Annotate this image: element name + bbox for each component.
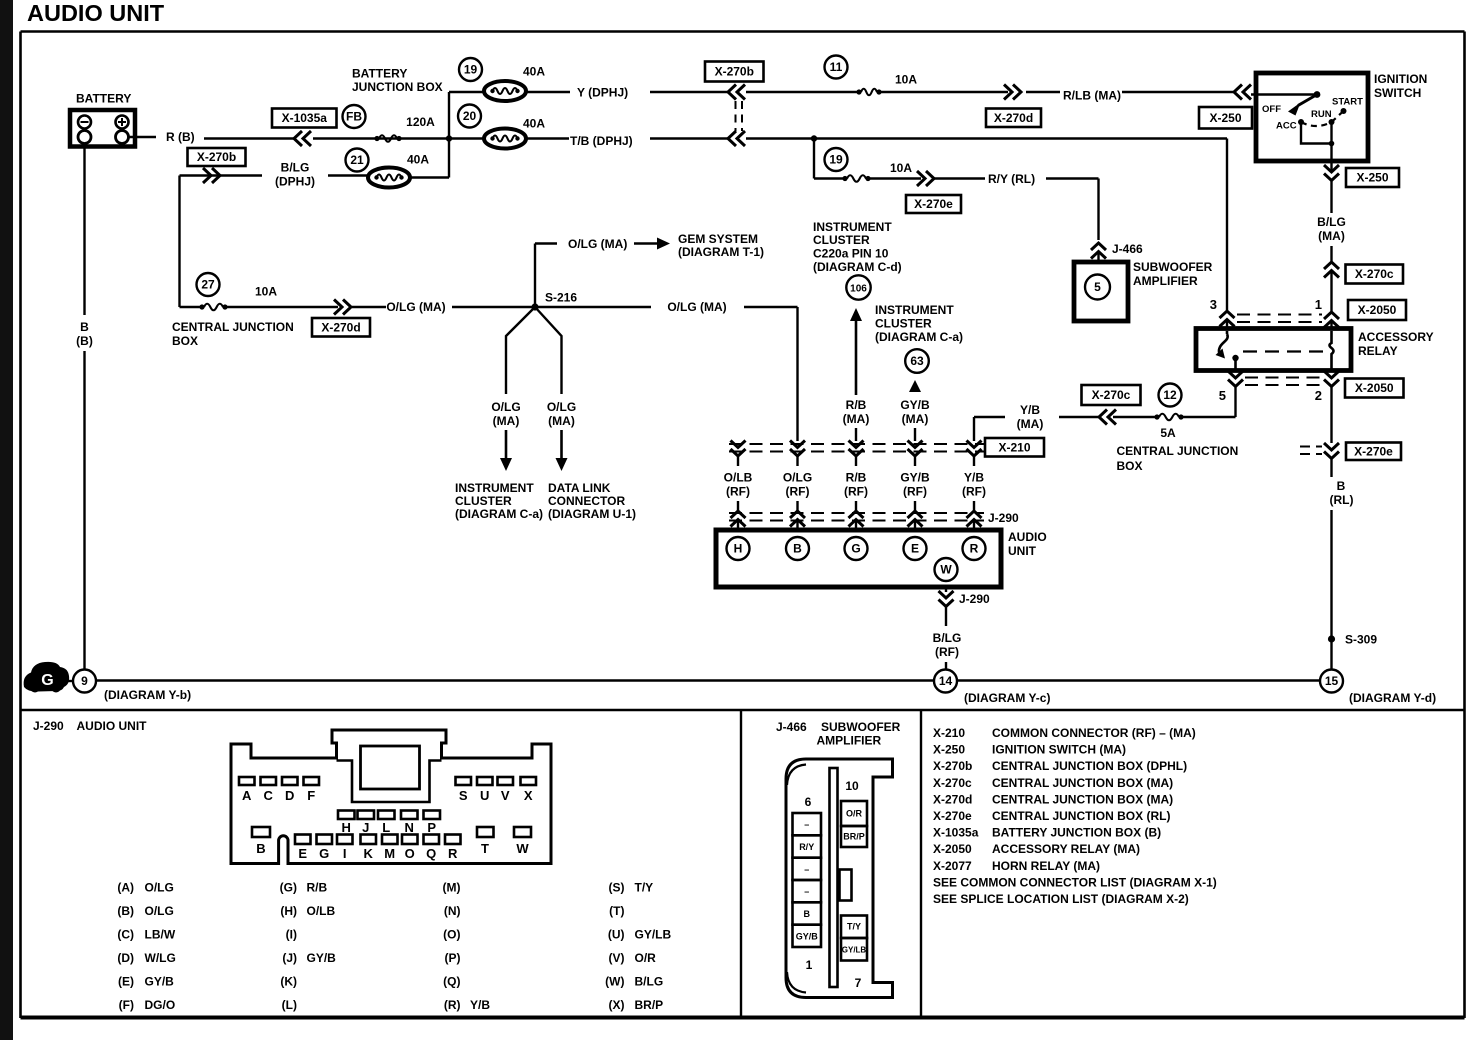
connector X-250 left of ignition switch	[1199, 107, 1252, 129]
svg-text:RELAY: RELAY	[1358, 344, 1398, 358]
svg-text:OFF: OFF	[1262, 104, 1281, 115]
junction on T/B for 10A fuse 19	[811, 135, 817, 141]
svg-text:SWITCH: SWITCH	[1374, 86, 1421, 100]
svg-text:B: B	[793, 542, 802, 556]
J-290 pins row H J L N P	[338, 811, 440, 836]
fuse 19 40A	[459, 58, 545, 101]
svg-text:CENTRAL JUNCTION BOX (MA): CENTRAL JUNCTION BOX (MA)	[992, 792, 1173, 806]
svg-text:CENTRAL JUNCTION: CENTRAL JUNCTION	[172, 320, 294, 334]
svg-text:–: –	[804, 887, 809, 897]
svg-text:106: 106	[850, 284, 867, 295]
svg-text:IGNITION SWITCH (MA): IGNITION SWITCH (MA)	[992, 743, 1126, 757]
svg-text:B: B	[803, 909, 810, 919]
svg-text:X-2050: X-2050	[933, 842, 972, 856]
connector FB	[343, 105, 366, 128]
svg-text:START: START	[1332, 97, 1363, 108]
label DATA LINK CONNECTOR (DIAGRAM U-1)	[548, 481, 636, 521]
wire labels O/LB O/LG R/B GY/B Y/B (RF)	[724, 471, 986, 499]
J-466 subwoofer amplifier connector drawing	[786, 759, 893, 998]
svg-text:Q: Q	[426, 846, 436, 861]
svg-text:N: N	[405, 820, 414, 835]
fuse 27 10A central junction box	[172, 273, 294, 348]
svg-text:O/R: O/R	[635, 951, 657, 965]
svg-text:O/LG: O/LG	[145, 881, 174, 895]
svg-text:GY/B: GY/B	[796, 931, 819, 941]
svg-text:I: I	[343, 846, 347, 861]
label INSTRUMENT CLUSTER C220a PIN 10	[813, 220, 902, 274]
svg-text:(T): (T)	[609, 904, 624, 918]
svg-text:X-270b: X-270b	[933, 759, 972, 773]
connector crossing X-270b on B/LG	[203, 168, 211, 183]
svg-text:T: T	[481, 841, 489, 856]
connector X-270b box top	[705, 62, 764, 82]
svg-text:D: D	[285, 788, 294, 803]
svg-text:10A: 10A	[890, 161, 912, 175]
svg-text:O/R: O/R	[846, 809, 863, 819]
svg-text:S-309: S-309	[1345, 633, 1377, 647]
svg-text:V: V	[501, 788, 510, 803]
section header J-466 SUBWOOFER AMPLIFIER	[776, 720, 901, 748]
svg-text:GY/LB: GY/LB	[635, 928, 672, 942]
svg-text:W: W	[940, 563, 952, 577]
connector X-270c box middle	[1082, 385, 1141, 405]
branch O/LG to instrument cluster	[491, 307, 535, 471]
svg-text:X: X	[524, 788, 533, 803]
svg-text:SUBWOOFER: SUBWOOFER	[1133, 260, 1213, 274]
svg-text:(E): (E)	[118, 975, 134, 989]
svg-text:M: M	[384, 846, 395, 861]
svg-text:5A: 5A	[1160, 426, 1176, 440]
svg-text:BR/P: BR/P	[635, 998, 664, 1012]
connector X-210 crossing	[729, 441, 985, 467]
node 14 ground connector	[934, 670, 1050, 706]
svg-text:1: 1	[806, 958, 813, 972]
svg-text:(DPHJ): (DPHJ)	[275, 175, 315, 189]
J-466 right pin column upper	[841, 801, 867, 847]
svg-text:R (B): R (B)	[166, 130, 195, 144]
svg-text:BOX: BOX	[172, 334, 198, 348]
svg-text:Y/B: Y/B	[964, 471, 984, 485]
svg-text:X-2050: X-2050	[1355, 381, 1394, 395]
svg-text:BATTERY JUNCTION BOX (B): BATTERY JUNCTION BOX (B)	[992, 826, 1161, 840]
connector X-270e box	[906, 195, 961, 213]
svg-text:GY/B: GY/B	[900, 471, 930, 485]
svg-text:B/LG: B/LG	[1317, 215, 1346, 229]
svg-text:J-466: J-466	[1112, 242, 1143, 256]
svg-text:(DIAGRAM C-a): (DIAGRAM C-a)	[455, 507, 543, 521]
svg-text:P: P	[427, 820, 436, 835]
svg-text:DG/O: DG/O	[145, 998, 176, 1012]
svg-text:J-290: J-290	[959, 592, 990, 606]
fuse 19 10A central junction box	[814, 139, 912, 182]
fuse 11 10A	[825, 56, 918, 96]
svg-text:O/LG: O/LG	[491, 400, 520, 414]
wire B (B) from battery to ground	[76, 144, 93, 670]
svg-text:DATA LINK: DATA LINK	[548, 481, 611, 495]
svg-text:O/LG (MA): O/LG (MA)	[667, 300, 726, 314]
svg-text:CONNECTOR: CONNECTOR	[548, 494, 625, 508]
fuse 20 40A	[458, 105, 545, 149]
J-290 pin wire color table	[117, 881, 671, 1013]
svg-text:B: B	[256, 841, 265, 856]
wire B/LG (RF) to ground	[933, 587, 990, 669]
svg-text:A: A	[242, 788, 252, 803]
J-466 left pin column	[793, 813, 822, 947]
branch O/LG (MA) to GEM system	[535, 237, 670, 307]
wire Y (DPHJ)	[449, 86, 1060, 100]
svg-text:(J): (J)	[282, 951, 297, 965]
svg-text:(RF): (RF)	[726, 485, 750, 499]
svg-text:(RF): (RF)	[786, 485, 810, 499]
svg-text:Y/B: Y/B	[1020, 403, 1040, 417]
svg-text:J-290: J-290	[33, 719, 64, 733]
svg-text:(K): (K)	[280, 975, 297, 989]
svg-text:(DIAGRAM Y-b): (DIAGRAM Y-b)	[104, 688, 191, 702]
svg-text:X-2050: X-2050	[1358, 303, 1397, 317]
svg-text:T/Y: T/Y	[847, 922, 861, 932]
svg-text:19: 19	[464, 63, 478, 77]
svg-text:(U): (U)	[608, 928, 625, 942]
subwoofer amplifier	[1074, 260, 1213, 321]
fuse 12 5A	[1154, 384, 1183, 441]
svg-text:(RF): (RF)	[935, 645, 959, 659]
svg-text:GY/B: GY/B	[307, 951, 337, 965]
svg-text:BOX: BOX	[1117, 459, 1143, 473]
battery	[70, 92, 135, 147]
svg-text:R/B: R/B	[846, 398, 867, 412]
svg-text:H: H	[342, 820, 351, 835]
svg-text:S: S	[459, 788, 468, 803]
svg-text:O/LG: O/LG	[145, 904, 174, 918]
svg-text:(MA): (MA)	[493, 414, 520, 428]
svg-text:X-270d: X-270d	[321, 320, 360, 334]
J-290 pins row E G I K M O Q R	[295, 835, 461, 862]
svg-text:LB/W: LB/W	[145, 928, 176, 942]
svg-text:BR/P: BR/P	[843, 832, 865, 842]
svg-text:11: 11	[830, 60, 843, 74]
svg-text:CENTRAL JUNCTION BOX (MA): CENTRAL JUNCTION BOX (MA)	[992, 776, 1173, 790]
svg-text:X-270b: X-270b	[715, 65, 754, 79]
svg-text:J: J	[362, 820, 369, 835]
svg-text:(I): (I)	[286, 928, 297, 942]
audio unit	[716, 530, 1047, 587]
svg-text:(B): (B)	[76, 334, 93, 348]
svg-text:5: 5	[1094, 280, 1101, 294]
svg-text:X-270e: X-270e	[933, 809, 972, 823]
ground symbol G	[24, 662, 73, 693]
svg-text:SUBWOOFER: SUBWOOFER	[821, 720, 901, 734]
svg-text:(MA): (MA)	[843, 412, 870, 426]
svg-text:COMMON CONNECTOR (RF) – (MA): COMMON CONNECTOR (RF) – (MA)	[992, 726, 1196, 740]
svg-text:CLUSTER: CLUSTER	[455, 494, 512, 508]
svg-text:ACCESSORY RELAY (MA): ACCESSORY RELAY (MA)	[992, 842, 1140, 856]
connector X-270c crossing right	[1324, 262, 1339, 311]
wire T/B (DPHJ)	[526, 134, 1227, 148]
wire O/LG (MA) main run	[227, 300, 798, 442]
svg-text:X-210: X-210	[933, 726, 965, 740]
svg-text:R: R	[448, 846, 458, 861]
svg-text:B: B	[1337, 479, 1346, 493]
svg-text:(V): (V)	[609, 951, 625, 965]
svg-text:ACCESSORY: ACCESSORY	[1358, 330, 1434, 344]
connector X-270e box right	[1346, 443, 1401, 461]
svg-text:AUDIO: AUDIO	[1008, 530, 1047, 544]
junction node on R(B)/T-B wire	[446, 135, 452, 141]
svg-text:O/LG: O/LG	[783, 471, 812, 485]
svg-text:T/Y: T/Y	[635, 881, 654, 895]
svg-text:5: 5	[1219, 388, 1226, 403]
svg-text:B/LG: B/LG	[933, 631, 962, 645]
svg-text:–: –	[804, 820, 809, 830]
svg-text:AMPLIFIER: AMPLIFIER	[1133, 274, 1198, 288]
svg-text:X-1035a: X-1035a	[933, 826, 979, 840]
node 9 ground connector	[73, 670, 191, 703]
wire R/Y (RL)	[870, 171, 1099, 240]
svg-text:X-270b: X-270b	[197, 150, 236, 164]
svg-text:(DIAGRAM U-1): (DIAGRAM U-1)	[548, 507, 636, 521]
svg-text:X-270e: X-270e	[1354, 444, 1393, 458]
svg-text:H: H	[734, 542, 743, 556]
label INSTRUMENT CLUSTER (DIAGRAM C-a) lower	[455, 481, 543, 521]
connector J-290 crossing	[729, 501, 1019, 530]
svg-text:6: 6	[805, 795, 812, 809]
svg-text:BATTERY: BATTERY	[76, 92, 131, 106]
svg-text:W/LG: W/LG	[145, 951, 176, 965]
splice S-309	[1328, 633, 1377, 647]
svg-text:(S): (S)	[609, 881, 625, 895]
svg-text:K: K	[364, 846, 374, 861]
svg-text:B: B	[80, 320, 89, 334]
svg-text:X-270c: X-270c	[933, 776, 972, 790]
svg-text:(DIAGRAM C-d): (DIAGRAM C-d)	[813, 260, 902, 274]
connector legend list	[933, 726, 1217, 906]
svg-text:G: G	[851, 542, 860, 556]
svg-text:X-210: X-210	[998, 440, 1030, 454]
svg-text:27: 27	[201, 278, 215, 292]
J-290 pins row A C D F	[239, 777, 319, 803]
svg-text:IGNITION: IGNITION	[1374, 72, 1427, 86]
label BATTERY JUNCTION BOX	[352, 67, 443, 95]
svg-text:X-270d: X-270d	[933, 792, 972, 806]
svg-text:40A: 40A	[407, 153, 429, 167]
svg-text:GY/LB: GY/LB	[842, 946, 867, 955]
svg-text:X-270c: X-270c	[1092, 388, 1131, 402]
svg-text:7: 7	[855, 976, 862, 990]
svg-text:(W): (W)	[605, 975, 624, 989]
connector X-2050 crossing below relay	[1219, 371, 1339, 403]
connector X-210 box	[985, 438, 1044, 457]
svg-text:(MA): (MA)	[902, 412, 929, 426]
svg-text:INSTRUMENT: INSTRUMENT	[875, 303, 954, 317]
svg-text:9: 9	[81, 674, 88, 688]
connector X-270d box left	[312, 318, 370, 337]
svg-text:R/Y (RL): R/Y (RL)	[988, 172, 1035, 186]
J-466 right pin column lower	[841, 916, 867, 961]
svg-text:R/LB (MA): R/LB (MA)	[1063, 89, 1121, 103]
svg-text:(O): (O)	[443, 928, 460, 942]
svg-text:(DIAGRAM T-1): (DIAGRAM T-1)	[678, 245, 764, 259]
svg-text:(G): (G)	[280, 881, 297, 895]
svg-text:(DIAGRAM Y-d): (DIAGRAM Y-d)	[1349, 691, 1436, 705]
svg-text:X-2077: X-2077	[933, 859, 972, 873]
connector X-2050 crossing above relay	[1210, 297, 1339, 329]
svg-text:X-270d: X-270d	[994, 111, 1033, 125]
svg-text:O/LG (MA): O/LG (MA)	[568, 237, 627, 251]
svg-text:AUDIO UNIT: AUDIO UNIT	[27, 0, 165, 26]
wire R/B (MA)	[843, 308, 870, 441]
svg-text:63: 63	[910, 354, 924, 368]
svg-text:(C): (C)	[117, 928, 134, 942]
svg-text:C: C	[264, 788, 274, 803]
svg-text:CENTRAL JUNCTION BOX (DPHL): CENTRAL JUNCTION BOX (DPHL)	[992, 759, 1187, 773]
svg-text:12: 12	[1163, 388, 1177, 402]
svg-text:X-1035a: X-1035a	[282, 111, 328, 125]
svg-text:R/Y: R/Y	[799, 842, 814, 852]
fuse 21 40A	[346, 149, 430, 188]
svg-text:B/LG: B/LG	[635, 975, 664, 989]
connector X-2050 box top	[1348, 300, 1406, 320]
ignition switch	[1251, 72, 1427, 161]
branch wire to fuses 19/21	[448, 92, 450, 178]
connector crossing on R(B)	[294, 131, 302, 146]
svg-text:X-250: X-250	[1356, 171, 1388, 185]
svg-text:L: L	[382, 820, 390, 835]
node 15 ground connector	[1320, 670, 1436, 706]
svg-text:G: G	[41, 672, 53, 689]
J-290 audio unit connector drawing	[231, 730, 551, 864]
wire Y/B (MA) from relay pin 5 to central junction box	[974, 387, 1236, 442]
connector X-250 crossing below ignition	[1346, 168, 1399, 187]
svg-text:SEE COMMON CONNECTOR LIST (DIA: SEE COMMON CONNECTOR LIST (DIAGRAM X-1)	[933, 875, 1217, 889]
connector X-1035a	[272, 109, 337, 128]
svg-text:AUDIO UNIT: AUDIO UNIT	[77, 719, 148, 733]
svg-text:40A: 40A	[523, 65, 545, 79]
wire R (B) from battery to battery junction box	[129, 130, 485, 144]
svg-text:BATTERY: BATTERY	[352, 67, 407, 81]
svg-text:R/B: R/B	[846, 471, 867, 485]
svg-text:(RF): (RF)	[903, 485, 927, 499]
svg-text:ACC: ACC	[1276, 121, 1297, 132]
svg-text:10: 10	[845, 779, 859, 793]
svg-text:JUNCTION BOX: JUNCTION BOX	[352, 80, 443, 94]
svg-text:(A): (A)	[117, 881, 134, 895]
connector X-270d	[986, 109, 1041, 128]
svg-text:(RF): (RF)	[844, 485, 868, 499]
svg-text:40A: 40A	[523, 117, 545, 131]
svg-text:AMPLIFIER: AMPLIFIER	[817, 734, 882, 748]
svg-text:–: –	[804, 864, 809, 874]
svg-text:(DIAGRAM Y-c): (DIAGRAM Y-c)	[964, 691, 1050, 705]
svg-text:X-250: X-250	[1209, 111, 1241, 125]
label GEM SYSTEM	[678, 232, 764, 259]
svg-text:T/B (DPHJ): T/B (DPHJ)	[570, 134, 633, 148]
svg-text:14: 14	[939, 674, 953, 688]
svg-text:X-270e: X-270e	[914, 197, 953, 211]
node 106 instrument cluster	[846, 275, 870, 299]
wire B (RL) right column	[1300, 387, 1354, 670]
svg-text:R/B: R/B	[307, 881, 328, 895]
svg-text:15: 15	[1325, 674, 1339, 688]
svg-text:RUN: RUN	[1311, 109, 1332, 120]
svg-text:HORN RELAY (MA): HORN RELAY (MA)	[992, 859, 1100, 873]
fuse 120A in battery junction box	[374, 115, 435, 142]
svg-text:O: O	[405, 846, 415, 861]
svg-text:(Q): (Q)	[443, 975, 460, 989]
accessory relay	[1196, 329, 1434, 371]
svg-text:10A: 10A	[895, 73, 917, 87]
svg-text:X-270c: X-270c	[1355, 267, 1394, 281]
svg-text:FB: FB	[346, 110, 362, 124]
svg-text:Y/B: Y/B	[470, 998, 490, 1012]
svg-text:B/LG: B/LG	[281, 161, 310, 175]
J-290 pin B	[252, 827, 270, 856]
node 63 instrument cluster	[905, 349, 929, 373]
svg-text:O/LG (MA): O/LG (MA)	[386, 300, 445, 314]
svg-text:(F): (F)	[119, 998, 134, 1012]
svg-text:F: F	[307, 788, 315, 803]
svg-text:O/LG: O/LG	[547, 400, 576, 414]
svg-text:O/LB: O/LB	[307, 904, 336, 918]
svg-text:2: 2	[1315, 388, 1322, 403]
svg-text:U: U	[480, 788, 489, 803]
svg-text:R: R	[970, 542, 979, 556]
svg-text:(B): (B)	[117, 904, 134, 918]
svg-text:GEM SYSTEM: GEM SYSTEM	[678, 232, 758, 246]
svg-text:(X): (X)	[609, 998, 625, 1012]
ground bus wire	[96, 679, 1320, 681]
svg-text:(P): (P)	[445, 951, 461, 965]
wire GY/B (MA)	[900, 380, 930, 441]
svg-text:E: E	[298, 846, 307, 861]
svg-text:Y (DPHJ): Y (DPHJ)	[577, 86, 628, 100]
svg-text:X-250: X-250	[933, 743, 965, 757]
svg-text:CENTRAL JUNCTION: CENTRAL JUNCTION	[1117, 444, 1239, 458]
svg-text:10A: 10A	[255, 285, 277, 299]
label CENTRAL JUNCTION BOX right	[1117, 444, 1239, 473]
svg-text:J-290: J-290	[988, 511, 1019, 525]
svg-text:(L): (L)	[282, 998, 297, 1012]
svg-text:E: E	[911, 542, 919, 556]
svg-text:(DIAGRAM C-a): (DIAGRAM C-a)	[875, 330, 963, 344]
svg-text:GY/B: GY/B	[145, 975, 175, 989]
svg-text:(M): (M)	[443, 881, 461, 895]
branch O/LG to data link connector	[535, 307, 576, 471]
svg-text:C220a PIN 10: C220a PIN 10	[813, 247, 889, 261]
svg-text:(RL): (RL)	[1330, 493, 1354, 507]
svg-text:UNIT: UNIT	[1008, 544, 1037, 558]
svg-text:19: 19	[829, 153, 843, 167]
svg-text:G: G	[319, 846, 329, 861]
wire T/B branch down to accessory relay pin 3	[1226, 139, 1228, 311]
svg-text:20: 20	[463, 109, 477, 123]
svg-text:(D): (D)	[117, 951, 134, 965]
svg-text:(MA): (MA)	[1318, 229, 1345, 243]
wire B/LG (DPHJ)	[180, 161, 450, 308]
svg-text:W: W	[516, 841, 529, 856]
svg-text:INSTRUMENT: INSTRUMENT	[813, 220, 892, 234]
svg-text:J-466: J-466	[776, 720, 807, 734]
wire B/LG (MA) below ignition switch	[1317, 161, 1346, 261]
svg-text:O/LB: O/LB	[724, 471, 753, 485]
svg-text:CLUSTER: CLUSTER	[875, 317, 932, 331]
wire R/LB (MA)	[1004, 85, 1251, 103]
svg-text:(R): (R)	[444, 998, 461, 1012]
section header J-290 AUDIO UNIT	[33, 719, 147, 733]
J-290 pin T	[477, 827, 494, 856]
svg-text:(H): (H)	[280, 904, 297, 918]
svg-text:(MA): (MA)	[548, 414, 575, 428]
connector X-270b crossing	[728, 85, 745, 147]
